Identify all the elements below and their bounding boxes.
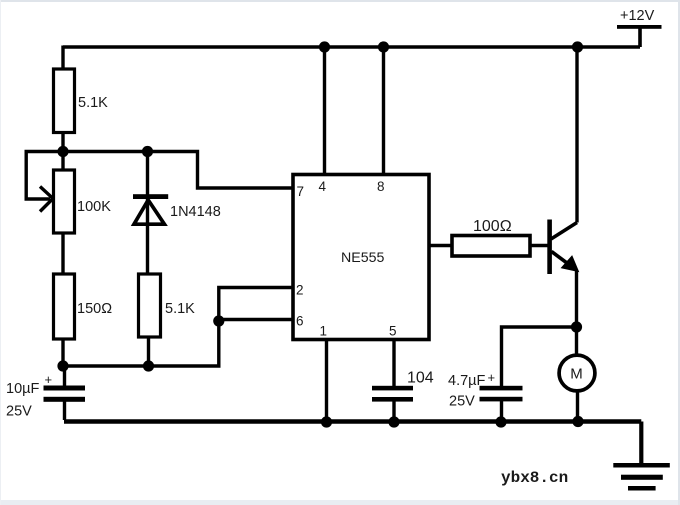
node junction dot motor/rail (572, 416, 583, 427)
svg-text:M: M (570, 365, 583, 382)
svg-text:ybx8.cn: ybx8.cn (501, 469, 568, 487)
svg-text:25V: 25V (449, 394, 475, 410)
node junction dot diode top (142, 146, 153, 157)
motor M1 (559, 327, 595, 422)
diode D1 1N4148 (133, 153, 221, 274)
svg-text:150Ω: 150Ω (77, 301, 112, 317)
svg-text:100K: 100K (77, 199, 111, 215)
svg-text:+12V: +12V (620, 8, 655, 24)
svg-text:+: + (488, 370, 496, 385)
node junction dot 4.7µF/rail (495, 416, 506, 427)
svg-text:1: 1 (320, 324, 328, 339)
wire bottom ground rail (64, 419, 641, 423)
svg-text:10µF: 10µF (6, 381, 39, 397)
ground symbol (613, 463, 670, 491)
op-amp U1 NE555 body (293, 175, 429, 340)
node junction dot collector/rail (572, 41, 583, 52)
resistor R4 100Ω (452, 218, 530, 256)
svg-text:5.1K: 5.1K (165, 301, 195, 317)
wire pin8 to rail (382, 47, 385, 174)
node junction dot pin8/rail (378, 41, 389, 52)
wire junction row y=151.5 to pin7 (25, 152, 294, 189)
node junction dot pin1/rail (321, 416, 332, 427)
wire collector to rail (575, 47, 578, 223)
wire base lead (530, 244, 548, 247)
resistor R1 5.1K (54, 46, 109, 154)
wire emitter down (575, 270, 578, 328)
svg-text:5: 5 (389, 324, 397, 339)
svg-text:25V: 25V (6, 404, 32, 420)
wire pot wiper branch (26, 152, 50, 200)
potentiometer wiper arrow (40, 187, 53, 212)
capacitor C2 104 (372, 340, 434, 422)
wire pin1 to ground rail (325, 340, 328, 422)
svg-text:NE555: NE555 (341, 250, 384, 266)
capacitor C3 4.7µF (448, 370, 523, 422)
node junction dot pin2/pin6 (213, 315, 224, 326)
svg-text:2: 2 (296, 283, 304, 298)
wire emitter node to C3 (502, 327, 577, 386)
node junction dot emitter/motor/cap (571, 321, 582, 332)
wire top power rail (63, 45, 640, 48)
node junction dot 5.1K bottom (143, 360, 154, 371)
svg-text:4: 4 (319, 179, 327, 194)
svg-text:1N4148: 1N4148 (170, 204, 221, 220)
node junction dot pin4/rail (319, 41, 330, 52)
svg-text:8: 8 (377, 179, 385, 194)
resistor R2 150Ω (54, 274, 113, 366)
node junction dot 150Ω/cap (57, 360, 68, 371)
node junction dot R1 bottom (57, 146, 68, 157)
svg-text:100Ω: 100Ω (473, 218, 512, 235)
svg-text:4.7µF: 4.7µF (448, 373, 486, 389)
wire pin4 to rail (323, 47, 326, 174)
wire bottom junction row to pins 2/6 (63, 288, 293, 367)
svg-text:7: 7 (297, 184, 305, 199)
svg-text:6: 6 (296, 314, 304, 329)
+12V power symbol (617, 8, 662, 47)
capacitor C1 10µF (6, 366, 85, 420)
resistor R3 5.1K (139, 274, 196, 366)
svg-text:104: 104 (407, 370, 434, 387)
wire pin6 stub (219, 318, 293, 321)
wire pin3 output (429, 244, 452, 247)
potentiometer RP1 100K (54, 152, 112, 274)
svg-text:5.1K: 5.1K (78, 95, 108, 111)
transistor Q1 (547, 220, 578, 275)
svg-text:+: + (45, 372, 53, 387)
node junction dot 104/rail (388, 416, 399, 427)
